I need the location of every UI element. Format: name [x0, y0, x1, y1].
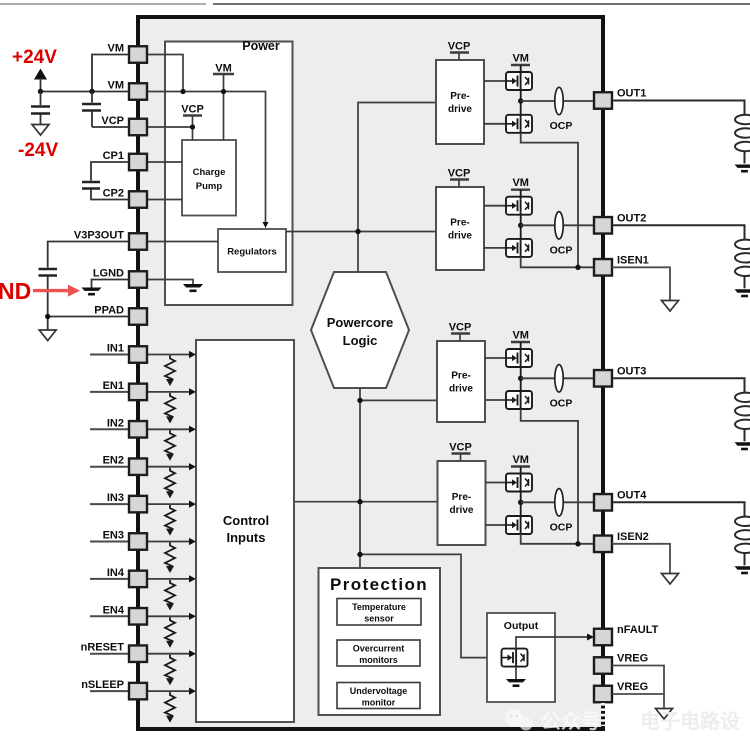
wire IN1 to control inputs [147, 354, 190, 356]
resistor nSLEEP pulldown [165, 692, 175, 723]
wire Q3L source to ISEN rail [521, 409, 578, 544]
VCP supply tap (pre-driver 3) [449, 322, 472, 342]
wire EN3 to control inputs [147, 541, 190, 543]
resistor IN4 pulldown [165, 580, 175, 611]
svg-text:VCP: VCP [101, 115, 124, 127]
wire Q9 drain to nFAULT pin [516, 637, 588, 649]
wire EN3 external stub [90, 541, 129, 543]
wire Q4L source to ISEN pin [521, 534, 594, 544]
svg-text:VM: VM [512, 454, 529, 466]
resistor EN3 pulldown [165, 543, 175, 574]
wire to output block gate [360, 554, 507, 657]
svg-text:monitor: monitor [362, 698, 396, 708]
ground (L2) [735, 289, 750, 297]
pin PPAD [94, 305, 147, 325]
VCP supply tap (power block) [181, 104, 204, 141]
wire VM1 pin to VM rail [147, 55, 183, 92]
wire IN3 external stub [90, 503, 129, 505]
arrowhead EN2 [189, 463, 196, 470]
transistor Q9 (nFAULT open drain) [502, 649, 528, 667]
svg-text:EN2: EN2 [103, 455, 124, 467]
pin ISEN2 [594, 531, 649, 552]
wire OUT2 to load [612, 225, 745, 227]
svg-text:nSLEEP: nSLEEP [81, 679, 124, 691]
undervoltage monitor block [337, 683, 420, 709]
pre-driver U2 [436, 187, 484, 270]
svg-text:VM: VM [512, 53, 529, 65]
node OUT1 junction [518, 98, 523, 103]
VM supply tap (half-bridge 1) [511, 53, 530, 73]
svg-text:IN1: IN1 [107, 343, 124, 355]
wire EN1 to control inputs [147, 391, 190, 393]
svg-text:Pre-: Pre- [452, 492, 471, 503]
VM supply tap (half-bridge 3) [511, 330, 530, 350]
wire IN2 external stub [90, 428, 129, 430]
pin VREG [594, 681, 648, 702]
pin EN3 [103, 530, 147, 550]
capacitor C1 (+24V bulk) [31, 92, 50, 125]
VM supply tap (power block) [213, 63, 234, 141]
wire Q2L source to ISEN pin [521, 257, 594, 267]
transistor Q4L (low side) [506, 516, 532, 534]
node OUT4 junction [518, 500, 523, 505]
pre-driver U1 [436, 60, 484, 144]
dashed border section [601, 703, 605, 726]
pin OUT3 [594, 365, 646, 386]
VREG ground [656, 709, 673, 720]
pin EN1 [103, 380, 147, 400]
wire LGND to internal ground [147, 280, 193, 285]
node +24V [38, 89, 43, 94]
wire Q1L source to ISEN rail [521, 133, 578, 267]
top border line [0, 3, 750, 5]
arrowhead EN3 [189, 538, 196, 545]
wire EN2 external stub [90, 466, 129, 468]
svg-text:Pre-: Pre- [450, 91, 469, 102]
wire VM rail [147, 92, 266, 224]
svg-text:OUT2: OUT2 [617, 212, 646, 224]
+24V supply arrow [34, 69, 47, 92]
wire VREG2 [612, 694, 664, 709]
svg-text:drive: drive [448, 104, 472, 115]
inductor L1 [735, 101, 750, 164]
pin VM [108, 43, 148, 63]
wire IN4 external stub [90, 578, 129, 580]
arrowhead IN3 [189, 501, 196, 508]
wire IN3 to control inputs [147, 503, 190, 505]
wire VREG pins to ground [612, 666, 664, 695]
resistor IN3 pulldown [165, 505, 175, 535]
resistor IN1 pulldown [165, 356, 175, 387]
transistor Q3H (high side) [506, 349, 532, 367]
pin nFAULT [594, 624, 659, 645]
resistor IN2 pulldown [165, 430, 175, 461]
wire ISEN2 to ground [612, 544, 670, 574]
pre-driver U3 [437, 341, 485, 422]
wire OUT4 to pin [521, 501, 594, 503]
svg-text:ISEN2: ISEN2 [617, 531, 649, 543]
gate wire high-side Q3H [485, 357, 507, 359]
node OUT2 junction [518, 223, 523, 228]
svg-text:IN4: IN4 [107, 567, 125, 579]
ground (power block) [183, 284, 203, 292]
OCP sense ellipse 1 [550, 87, 573, 132]
pin V3P3OUT [74, 230, 147, 250]
VCP supply tap (pre-driver 4) [449, 442, 472, 462]
output block [487, 613, 555, 702]
wire EN1 external stub [90, 391, 129, 393]
gate wire high-side Q4H [486, 482, 508, 484]
wire IN4 to control inputs [147, 578, 190, 580]
pin OUT1 [594, 88, 646, 109]
wire trunk upper [358, 103, 436, 273]
wire half-bridge 1 mid [520, 90, 522, 115]
gate wire low-side Q1L [484, 123, 507, 125]
svg-text:V3P3OUT: V3P3OUT [74, 230, 124, 242]
resistor EN4 pulldown [165, 617, 175, 648]
svg-text:Undervoltage: Undervoltage [350, 686, 408, 696]
arrowhead EN1 [189, 388, 196, 395]
arrowhead nSLEEP [189, 688, 196, 695]
ISEN1 ground [662, 301, 679, 312]
svg-text:Pump: Pump [196, 181, 223, 192]
pin VREG [594, 653, 648, 674]
svg-text:Protection: Protection [330, 575, 428, 594]
wire trunk lower [359, 388, 361, 568]
svg-text:Overcurrent: Overcurrent [353, 644, 405, 654]
pin IN1 [107, 343, 147, 363]
junction PPAD [45, 314, 50, 319]
svg-text:VREG: VREG [617, 681, 648, 693]
transistor Q3L (low side) [506, 391, 532, 409]
svg-text:Output: Output [504, 620, 539, 632]
VCP supply tap (pre-driver 1) [448, 41, 471, 61]
junction ISEN rail [575, 541, 580, 546]
wire CP2 to charge pump [147, 199, 182, 201]
svg-text:CP2: CP2 [103, 188, 124, 200]
svg-text:ISEN1: ISEN1 [617, 254, 649, 266]
ISEN2 ground [662, 574, 679, 585]
wire V3P3OUT to regulators [147, 241, 218, 243]
svg-text:Temperature: Temperature [352, 602, 406, 612]
OCP sense ellipse 3 [550, 365, 573, 410]
inductor L3 [735, 378, 750, 441]
gate wire low-side Q2L [484, 247, 507, 249]
svg-text:OUT4: OUT4 [617, 489, 647, 501]
svg-text:OCP: OCP [550, 244, 573, 256]
arrowhead EN4 [189, 613, 196, 620]
ground (L3) [735, 442, 750, 450]
PPAD ground [39, 330, 56, 341]
wire control inputs to predrive4 [294, 501, 438, 503]
svg-text:VM: VM [215, 63, 232, 75]
svg-text:nRESET: nRESET [81, 642, 125, 654]
resistor EN2 pulldown [165, 468, 175, 499]
pin IN2 [107, 417, 147, 437]
junction output branch [357, 552, 362, 557]
svg-text:CP1: CP1 [103, 150, 124, 162]
ground (output block) [506, 679, 526, 687]
svg-text:Power: Power [242, 39, 280, 53]
wire nSLEEP to control inputs [147, 690, 190, 692]
svg-text:LGND: LGND [93, 268, 124, 280]
svg-text:公众号: 公众号 [541, 710, 601, 733]
pin IN3 [107, 492, 147, 512]
pin nRESET [81, 642, 147, 662]
OCP sense ellipse 2 [550, 212, 573, 257]
pin EN4 [103, 604, 147, 624]
pin CP1 [103, 150, 147, 170]
resistor nRESET pulldown [165, 655, 175, 686]
svg-text:monitors: monitors [359, 655, 398, 665]
wire OUT3 to load [612, 378, 745, 380]
arrowhead IN4 [189, 575, 196, 582]
svg-text:VCP: VCP [448, 41, 471, 53]
svg-text:ND: ND [0, 278, 31, 304]
svg-text:电子电路设: 电子电路设 [640, 709, 740, 733]
ground (L4) [735, 566, 750, 574]
wire ISEN1 to ground [612, 267, 670, 300]
svg-text:Control: Control [223, 513, 269, 528]
wire VM1 branch [92, 55, 129, 92]
svg-text:drive: drive [450, 505, 474, 516]
svg-text:OCP: OCP [550, 397, 573, 409]
gate wire high-side Q1H [484, 80, 507, 82]
junction predrive3 branch [357, 398, 362, 403]
svg-text:VCP: VCP [449, 442, 472, 454]
arrowhead nRESET [189, 650, 196, 657]
wire OUT1 to pin [521, 100, 594, 102]
arrowhead into nFAULT pin [587, 634, 594, 641]
pin ISEN1 [594, 254, 649, 275]
svg-text:nFAULT: nFAULT [617, 624, 659, 636]
wire OUT1 to load [612, 101, 745, 103]
gate wire low-side Q3L [485, 399, 507, 401]
svg-text:VM: VM [108, 80, 125, 92]
ground (L1) [735, 165, 750, 173]
resistor EN1 pulldown [165, 393, 175, 424]
control inputs block [196, 340, 294, 722]
arrowhead IN2 [189, 426, 196, 433]
svg-text:VCP: VCP [181, 104, 204, 116]
wire half-bridge 2 mid [520, 215, 522, 239]
wire half-bridge 3 mid [520, 367, 522, 391]
VCP supply tap (pre-driver 2) [448, 168, 471, 188]
svg-text:IN2: IN2 [107, 417, 124, 429]
svg-text:VREG: VREG [617, 653, 648, 665]
wire nSLEEP external stub [90, 690, 129, 692]
transistor Q2H (high side) [506, 197, 532, 215]
junction VM tap/rail [221, 89, 226, 94]
wire Q9 source to ground [515, 667, 517, 679]
svg-text:VM: VM [512, 330, 529, 342]
pin IN4 [107, 567, 147, 587]
-24V terminal [32, 125, 49, 136]
capacitor C4 (V3P3OUT) [39, 242, 130, 331]
wire VCP pin to charge pump [147, 126, 193, 128]
svg-text:Logic: Logic [343, 333, 378, 348]
svg-text:VM: VM [108, 43, 125, 55]
svg-text:EN1: EN1 [103, 380, 124, 392]
powercore logic hexagon [311, 272, 409, 388]
wire OUT4 to load [612, 502, 745, 504]
Power block [165, 39, 293, 305]
junction trunk upper [355, 229, 360, 234]
svg-text:Powercore: Powercore [327, 315, 393, 330]
pin EN2 [103, 455, 147, 475]
transistor Q2L (low side) [506, 239, 532, 257]
wire EN4 to control inputs [147, 615, 190, 617]
inductor L4 [735, 502, 750, 565]
wire IN1 external stub [90, 354, 129, 356]
watermark logo [505, 709, 533, 731]
wire EN2 to control inputs [147, 466, 190, 468]
VM supply tap (half-bridge 2) [511, 177, 530, 197]
protection block [319, 568, 441, 715]
inductor L2 [735, 225, 750, 288]
arrowhead IN1 [189, 351, 196, 358]
wire CP1 to charge pump [147, 161, 182, 163]
svg-text:+24V: +24V [12, 47, 57, 68]
transistor Q4H (high side) [506, 474, 532, 492]
pin LGND [93, 268, 147, 288]
svg-text:VCP: VCP [449, 322, 472, 334]
svg-text:Inputs: Inputs [227, 530, 266, 545]
junction VM branch [89, 89, 94, 94]
wire nRESET external stub [90, 653, 129, 655]
svg-text:VM: VM [512, 177, 529, 189]
VM supply tap (half-bridge 4) [511, 454, 530, 474]
wire to predrive3 [360, 399, 437, 401]
pin VCP [101, 115, 147, 135]
pin VM [108, 80, 148, 100]
arrowhead into regulators [263, 222, 269, 228]
svg-text:Pre-: Pre- [450, 218, 469, 229]
svg-text:drive: drive [449, 384, 473, 395]
svg-text:PPAD: PPAD [94, 305, 124, 317]
capacitor C3 (CP1-CP2 flying) [82, 162, 129, 200]
charge pump block [182, 140, 236, 216]
svg-text:-24V: -24V [18, 140, 58, 161]
svg-text:drive: drive [448, 231, 472, 242]
svg-text:EN4: EN4 [103, 604, 125, 616]
capacitor C2 (VM-VCP) [82, 92, 129, 128]
svg-text:OUT1: OUT1 [617, 88, 646, 100]
wire LGND external [92, 280, 130, 288]
IC body outline U1 [138, 17, 603, 729]
wire PPAD [48, 316, 129, 318]
svg-text:OCP: OCP [550, 120, 573, 132]
wire OUT3 to pin [521, 377, 594, 379]
node OUT3 junction [518, 376, 523, 381]
GND red arrow [33, 285, 80, 297]
wire regulators to predrive2 [286, 231, 436, 233]
svg-text:VCP: VCP [448, 168, 471, 180]
svg-text:IN3: IN3 [107, 492, 124, 504]
svg-text:Pre-: Pre- [451, 371, 470, 382]
junction predrive4 branch [357, 499, 362, 504]
pre-driver U4 [438, 461, 486, 545]
gate wire low-side Q4L [486, 524, 508, 526]
wire OUT2 to pin [521, 224, 594, 226]
wire +24V rail [41, 91, 130, 93]
overcurrent monitors block [337, 640, 420, 666]
transistor Q1H (high side) [506, 72, 532, 90]
regulators block [218, 229, 286, 272]
svg-text:Charge: Charge [193, 167, 226, 178]
junction VCP [190, 124, 195, 129]
junction VM1/rail [180, 89, 185, 94]
pin OUT2 [594, 212, 646, 233]
ground (LGND) [82, 288, 102, 296]
wire IN2 to control inputs [147, 428, 190, 430]
temperature sensor block [337, 599, 421, 626]
wire EN4 external stub [90, 615, 129, 617]
svg-text:OUT3: OUT3 [617, 365, 646, 377]
transistor Q1L (low side) [506, 115, 532, 133]
pin OUT4 [594, 489, 647, 510]
svg-text:sensor: sensor [364, 614, 394, 624]
svg-text:OCP: OCP [550, 521, 573, 533]
junction ISEN rail [575, 265, 580, 270]
svg-text:Regulators: Regulators [227, 247, 277, 258]
pin CP2 [103, 188, 147, 208]
gate wire high-side Q2H [484, 205, 507, 207]
svg-text:EN3: EN3 [103, 530, 124, 542]
pin nSLEEP [81, 679, 147, 699]
wire half-bridge 4 mid [520, 492, 522, 517]
wire nRESET to control inputs [147, 653, 190, 655]
OCP sense ellipse 4 [550, 489, 573, 534]
